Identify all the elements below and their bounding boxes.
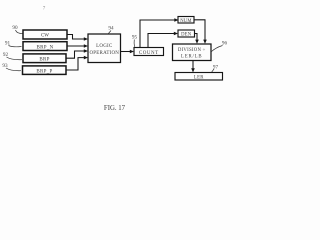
- block NUM: [178, 17, 194, 24]
- wire CW to logic: [67, 35, 88, 41]
- node 91: [5, 41, 22, 47]
- wire den to divider: [195, 34, 199, 44]
- node 92: [3, 52, 22, 60]
- wire BRP_P to logic: [66, 56, 88, 70]
- block BRP_P: [23, 66, 67, 75]
- svg-text:CW: CW: [41, 34, 49, 39]
- svg-text:LOGIC: LOGIC: [96, 44, 113, 49]
- block COUNT: [134, 48, 164, 56]
- svg-text:NUM: NUM: [180, 19, 192, 24]
- svg-text:DEN: DEN: [181, 33, 192, 38]
- svg-text:95: 95: [132, 35, 138, 41]
- svg-text:BRP_N: BRP_N: [36, 45, 53, 50]
- svg-text:LER: LER: [194, 75, 204, 80]
- svg-text:92: 92: [3, 52, 9, 58]
- wire logic to count: [121, 50, 135, 54]
- block BRP_N: [23, 42, 67, 51]
- wire count to num: [140, 18, 179, 47]
- svg-text:94: 94: [108, 26, 114, 32]
- svg-text:BRP: BRP: [39, 58, 49, 63]
- svg-text:DIVISION ÷: DIVISION ÷: [178, 48, 206, 53]
- wire num to divider: [194, 20, 207, 44]
- wire count to den: [148, 32, 178, 48]
- svg-text:COUNT: COUNT: [139, 51, 159, 56]
- node 96: [212, 41, 228, 52]
- svg-text:BRP_P: BRP_P: [36, 70, 52, 75]
- wire division to ler: [191, 61, 195, 73]
- block U94 logic operation: [88, 34, 121, 63]
- block BRP: [23, 54, 66, 63]
- svg-text:OPERATION: OPERATION: [90, 51, 120, 56]
- svg-text:FIG. 17: FIG. 17: [104, 105, 126, 112]
- svg-text:96: 96: [222, 41, 228, 47]
- svg-text:93: 93: [2, 63, 8, 69]
- node 97: [212, 65, 219, 73]
- svg-text:7: 7: [43, 7, 46, 12]
- node 93: [2, 63, 21, 71]
- block U96 division: [173, 44, 212, 61]
- node 94: [108, 26, 114, 35]
- node 90: [12, 25, 23, 34]
- wire BRP to logic: [66, 49, 88, 58]
- block LER: [175, 73, 223, 81]
- node 95: [132, 35, 138, 47]
- svg-text:LER/LB: LER/LB: [181, 55, 202, 60]
- wire BRP_N to logic: [67, 44, 88, 48]
- block DEN: [178, 30, 195, 38]
- block CW: [23, 30, 67, 39]
